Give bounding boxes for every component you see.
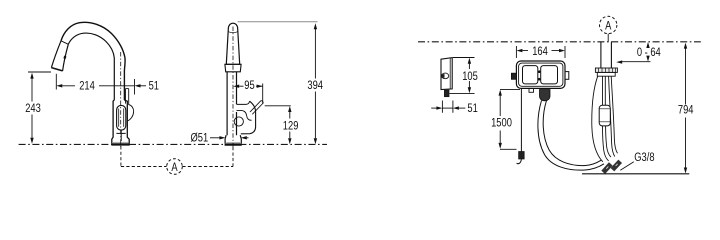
faucet F1 center axis dash-dot: [120, 52, 122, 148]
svg-text:1500: 1500: [491, 117, 512, 130]
supply hoses under shank: [592, 76, 618, 162]
detail marker A (left) dashed circle: [167, 159, 183, 175]
dim 1500: [491, 89, 520, 149]
svg-text:Ø51: Ø51: [190, 131, 208, 144]
dim 394 vertical line: [307, 23, 323, 144]
faucet F1 body column: [112, 100, 129, 144]
detail marker A (right) dashed circle: [600, 16, 617, 42]
control box U1 bottom stub: [529, 88, 534, 92]
control box U1 windows: [523, 66, 558, 84]
svg-text:164: 164: [532, 45, 548, 58]
faucet F1 gooseneck spout inner outline: [68, 33, 114, 100]
faucet F2 center axis dash-dot: [232, 27, 234, 148]
dim 51 label: [149, 79, 159, 92]
dim 0 - 64: [616, 42, 661, 64]
dim 105: [450, 58, 478, 94]
faucet F1 cross mark: [116, 130, 125, 141]
svg-text:51: 51: [149, 79, 159, 92]
dim 214 line with left arrow: [56, 74, 134, 90]
faucet F2 handle lever (diagonal): [250, 101, 263, 115]
faucet F2 side spout ledge: [237, 101, 250, 104]
dim 394 extension line (gray): [238, 21, 318, 23]
svg-text:95: 95: [244, 79, 254, 92]
inline connector block: [599, 105, 610, 126]
dim 95 line: [233, 79, 263, 104]
faucet F1 base plate (gray): [111, 142, 129, 145]
faucet F2 handle drum body: [234, 101, 255, 134]
dashed locator line U-shape to detail A: [121, 146, 233, 166]
dim 243 vertical line with arrows: [30, 73, 33, 144]
faucet shank below deck: [601, 42, 612, 68]
svg-text:794: 794: [678, 104, 694, 117]
faucet F1 nozzle (pull-down wand tip): [51, 41, 68, 71]
dim 164: [516, 45, 565, 58]
faucet F2 neck tube: [227, 72, 236, 135]
svg-text:243: 243: [25, 102, 41, 115]
dim 129: [265, 106, 299, 145]
faucet F2 (side view) wand cap: [226, 23, 239, 64]
control box U1 side tabs: [511, 72, 568, 80]
svg-text:394: 394: [307, 79, 323, 92]
label G3/8 with leader: [620, 151, 654, 170]
dim 794: [678, 43, 694, 174]
svg-text:G3/8: G3/8: [634, 151, 654, 164]
dim 243 label: [25, 102, 41, 115]
svg-text:A: A: [605, 19, 612, 32]
hose from control box (double line arc): [538, 101, 604, 171]
faucet F2 wand collar: [225, 64, 241, 72]
dim 51 tick and arrow: [135, 79, 147, 95]
faucet F1 lever blade and hook: [126, 89, 134, 122]
faucet F1 handle capsule (front view): [117, 105, 126, 130]
dim 243 extension line top: [28, 71, 51, 73]
hose fittings G3/8 ends: [603, 161, 620, 172]
dim 51 (right figure): [431, 101, 478, 116]
svg-text:51: 51: [467, 102, 477, 115]
faucet F1 gooseneck spout outer outline: [61, 22, 125, 100]
dim 214 label: [79, 79, 95, 92]
svg-text:214: 214: [79, 79, 95, 92]
svg-text:A: A: [171, 161, 178, 174]
control box U1 outlet nut: [540, 90, 551, 101]
faucet F2 base: [225, 135, 242, 144]
svg-text:105: 105: [462, 70, 478, 83]
control box U1 outer shell: [516, 61, 565, 88]
mounting washer and nut: [595, 68, 617, 76]
left counter dash-dot line: [19, 143, 327, 145]
dim Ø51 label and leader: [190, 131, 248, 144]
bottom reference line: [582, 173, 689, 175]
sensor unit B1 (side box): [441, 58, 452, 97]
sensor cable from control box: [517, 88, 525, 163]
svg-text:129: 129: [283, 120, 299, 133]
right figure counter dash-dot line: [418, 41, 701, 43]
